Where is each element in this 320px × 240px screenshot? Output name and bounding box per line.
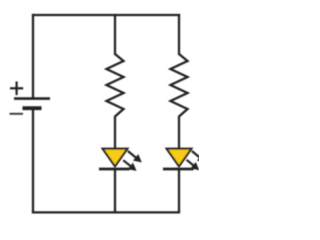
wire: branch 1 top [114, 14, 116, 55]
wire: branch 1 middle (R1 to D1) [114, 116, 116, 150]
wire: branch 2 middle (R2 to D2) [178, 116, 180, 150]
battery B1 [10, 82, 51, 114]
wire: left rail lower (battery - side) [32, 108, 34, 213]
LED D1 [99, 149, 142, 171]
resistor R1 [107, 54, 124, 117]
resistor R2 [171, 54, 188, 117]
wire: left rail upper (battery + side) [32, 14, 34, 99]
wire: bottom rail [32, 211, 180, 213]
wire: top rail [32, 14, 180, 16]
LED D2 [163, 149, 206, 171]
wire: branch 1 bottom (D1 to bottom rail) [114, 168, 116, 213]
wire: branch 2 bottom (D2 to bottom rail) [178, 168, 180, 213]
wire: branch 2 top [178, 14, 180, 55]
